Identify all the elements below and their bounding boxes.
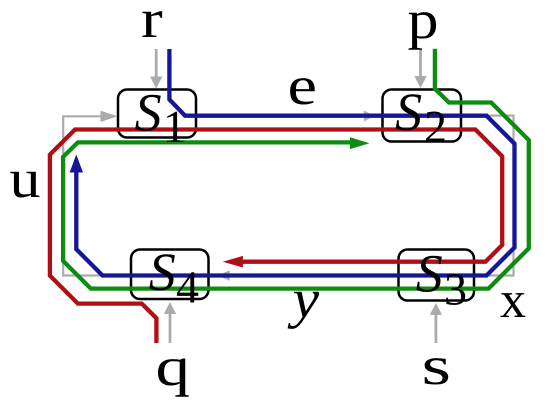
svg-text:r: r	[141, 0, 163, 49]
svg-text:y: y	[287, 268, 320, 329]
svg-text:S: S	[395, 82, 422, 142]
block S4 box	[131, 250, 209, 300]
wire red signal path q loop into S4	[50, 130, 502, 344]
svg-text:S: S	[149, 242, 176, 302]
block S3 label	[416, 244, 467, 315]
svg-text:q: q	[156, 336, 191, 397]
wire gray feedback u: S4 output around left side into S1	[63, 116, 131, 275]
svg-text:3: 3	[444, 264, 467, 315]
svg-text:1: 1	[163, 101, 186, 152]
block S1 label	[135, 83, 186, 153]
wire gray input q arrow	[164, 302, 176, 343]
svg-text:s: s	[422, 335, 452, 396]
svg-text:4: 4	[176, 262, 199, 313]
red arrowhead into S4	[223, 256, 243, 268]
wire gray input r arrow	[150, 49, 162, 89]
svg-text:e: e	[288, 55, 318, 116]
wire green signal path p loop	[63, 49, 529, 289]
svg-text:2: 2	[424, 101, 447, 152]
wire gray input p arrow	[414, 49, 426, 88]
block S3 box	[399, 250, 475, 301]
node x arrowhead into S4	[218, 270, 230, 280]
green arrowhead mid loop	[350, 137, 370, 149]
block S2 label	[395, 82, 447, 152]
svg-text:S: S	[135, 83, 162, 143]
block S4 label	[149, 242, 199, 313]
wire blue signal path r loop	[76, 49, 514, 276]
wire gray feedback x: S2 output around right side into S4	[229, 116, 514, 276]
svg-text:S: S	[416, 244, 443, 304]
svg-text:x: x	[500, 272, 526, 329]
svg-text:p: p	[408, 0, 439, 50]
blue arrowhead up left side	[70, 155, 83, 173]
block S1 box	[118, 90, 196, 138]
wire gray input s arrow	[430, 303, 442, 343]
node u arrowhead into S1	[101, 111, 118, 122]
node e arrowhead into S2 (on blue line)	[364, 110, 375, 121]
svg-text:u: u	[10, 148, 41, 209]
block S2 box	[383, 90, 462, 142]
